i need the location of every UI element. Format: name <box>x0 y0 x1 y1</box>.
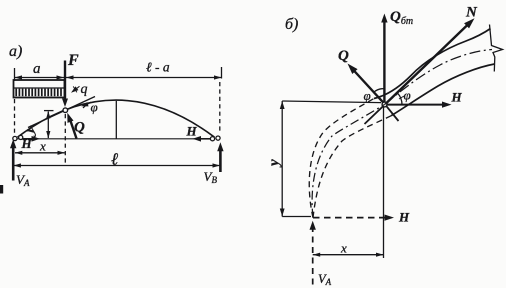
distributed load q strip <box>14 80 65 98</box>
svg-text:H: H <box>186 124 198 139</box>
dimension line a and l-a <box>15 77 222 79</box>
y dimension (fig a) <box>47 112 49 139</box>
reaction V_B <box>219 147 222 172</box>
svg-text:N: N <box>465 5 478 21</box>
normal force N arrow <box>385 23 470 105</box>
section point K <box>382 102 387 107</box>
dashed extension below hinge <box>64 114 66 165</box>
arrowhead dim l-a right <box>214 75 222 79</box>
angle phi left (fig b) <box>374 89 385 93</box>
dashed extension below load left <box>14 99 16 134</box>
l dimension (fig a) <box>13 165 220 167</box>
baseline chord <box>16 138 213 140</box>
crown vertical line <box>115 101 117 139</box>
dashed band lower edge <box>313 116 391 218</box>
extension tick left <box>14 68 16 81</box>
dash-dot axis upper part <box>385 50 493 105</box>
arch curve <box>18 100 215 137</box>
force Q (fig a) <box>70 118 77 139</box>
svg-text:Q: Q <box>74 120 85 136</box>
extension tick right <box>221 67 223 79</box>
arrowhead dim l-a left <box>66 75 74 79</box>
break (cut) zigzag <box>490 25 503 72</box>
thrust H at A (left) <box>32 136 41 142</box>
svg-text:Q: Q <box>338 48 349 64</box>
svg-text:φ: φ <box>91 100 98 115</box>
solid band lower edge <box>391 64 495 116</box>
vertical extension below K <box>383 106 385 258</box>
thrust H arrow (fig b upper) <box>385 104 444 106</box>
solid band upper edge <box>374 29 491 99</box>
shear Q arrow (fig b) <box>352 69 385 105</box>
force F <box>64 61 66 101</box>
q leader arrow <box>74 86 80 91</box>
support hinge B circles <box>210 137 214 141</box>
hinge circle <box>63 108 68 113</box>
bottom extension line to A (fig b) <box>282 216 311 218</box>
svg-text:а): а) <box>9 43 22 60</box>
svg-text:ℓ: ℓ <box>111 150 118 169</box>
svg-text:F: F <box>67 52 79 69</box>
angle phi arc (fig a) <box>83 102 91 108</box>
svg-text:x: x <box>39 139 46 154</box>
svg-text:ℓ - a: ℓ - a <box>146 60 170 75</box>
x dimension (fig a) <box>15 152 65 154</box>
y dimension line (fig b) <box>281 101 283 217</box>
H dashed arrow at A (fig b) <box>313 217 387 219</box>
svg-text:y: y <box>267 159 283 168</box>
arrowhead dim a left <box>15 75 23 79</box>
dashed band upper edge <box>309 99 374 218</box>
edge ink blob <box>0 185 3 194</box>
Q line extension below point <box>385 104 399 121</box>
y extension line (fig b) <box>282 101 381 103</box>
arrowhead dim a right <box>57 75 65 79</box>
svg-text:a: a <box>33 61 41 77</box>
svg-text:б): б) <box>285 16 298 33</box>
support hinge A circles <box>13 136 17 140</box>
beam shear Qbm arrow <box>383 22 385 104</box>
svg-text:q: q <box>81 82 88 97</box>
svg-text:x: x <box>340 241 347 256</box>
dashed extension right support <box>219 82 221 133</box>
N line extension below point <box>365 104 386 124</box>
svg-text:H: H <box>398 210 410 225</box>
svg-text:φ: φ <box>404 88 411 103</box>
V_A dashed arrow (fig b) <box>312 226 314 288</box>
dash-dot axis lower part <box>312 105 384 218</box>
thrust H at B (right) <box>193 136 202 142</box>
angle phi right (fig b) <box>398 93 403 105</box>
reaction V_A (fig a) <box>12 144 15 181</box>
svg-text:H: H <box>451 90 463 105</box>
x dimension (fig b) <box>313 254 384 256</box>
tangent line at hinge <box>28 97 95 128</box>
